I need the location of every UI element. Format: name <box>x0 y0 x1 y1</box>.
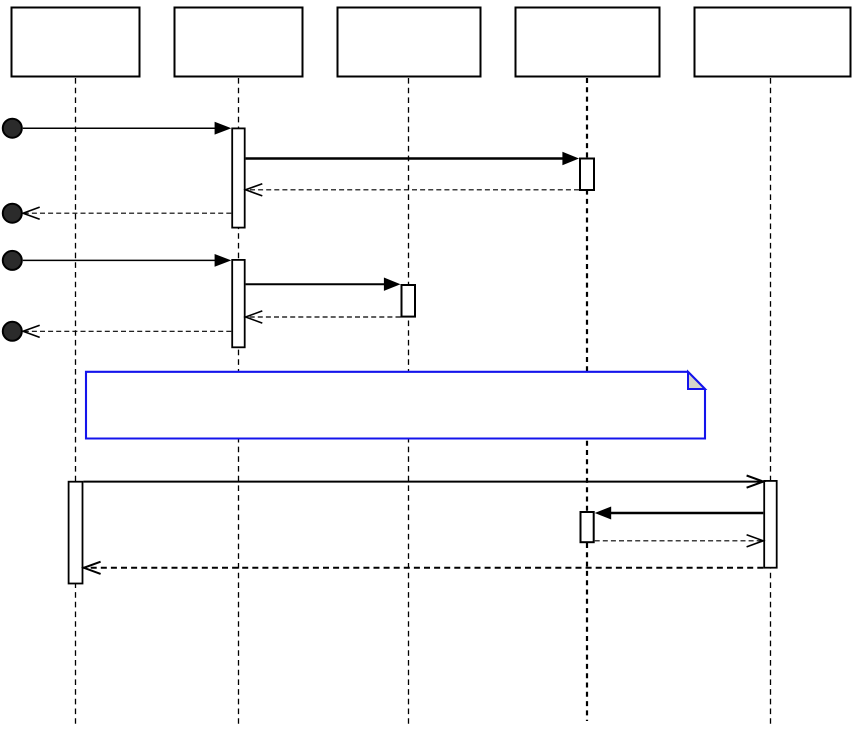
note box <box>86 372 705 439</box>
activation bar A7 on lifeline 4 <box>581 512 594 542</box>
found message circle C4 <box>3 322 22 341</box>
object box 1 <box>12 8 140 77</box>
message M6: call from A3 to A4 <box>246 278 401 291</box>
message M7: dashed return A4 to A3 <box>246 311 401 323</box>
lifeline 5 <box>770 78 772 724</box>
message M5: found message to A3 <box>23 254 232 267</box>
lifeline 2 <box>238 78 240 724</box>
message M10: call from A6 to A7 <box>595 507 764 520</box>
lifeline 1 <box>75 78 77 724</box>
lifeline 4 (bold) <box>586 78 588 721</box>
message M11: dashed return A7 to A6 <box>595 535 764 547</box>
object box 3 <box>338 8 481 77</box>
found message circle C3 <box>3 251 22 270</box>
message M8: dashed return A3 to C4 <box>23 325 231 337</box>
found message circle C1 <box>3 119 22 138</box>
object box 4 <box>516 8 660 77</box>
object box 5 <box>695 8 851 77</box>
message M1: found message to A1 <box>23 122 232 135</box>
lifeline 3 <box>408 78 410 724</box>
message M3: dashed return A2 to A1 <box>246 184 579 196</box>
activation bar A4 on lifeline 3 <box>402 285 416 317</box>
activation bar A1 on lifeline 2 <box>232 128 245 227</box>
message M9: async call A5 to A6 <box>83 476 763 488</box>
activation bar A3 on lifeline 2 <box>232 260 245 347</box>
activation bar A5 on lifeline 1 <box>69 482 83 584</box>
message M4: dashed return A1 to C2 <box>23 207 231 219</box>
message M12: dashed return A6 to A5 (bold) <box>83 562 763 574</box>
message M2: call from A1 to A2 <box>246 152 579 165</box>
activation bar A6 on lifeline 5 <box>764 481 777 568</box>
found message circle C2 <box>3 204 22 223</box>
activation bar A2 on lifeline 4 <box>580 159 594 191</box>
object box 2 <box>175 8 303 77</box>
